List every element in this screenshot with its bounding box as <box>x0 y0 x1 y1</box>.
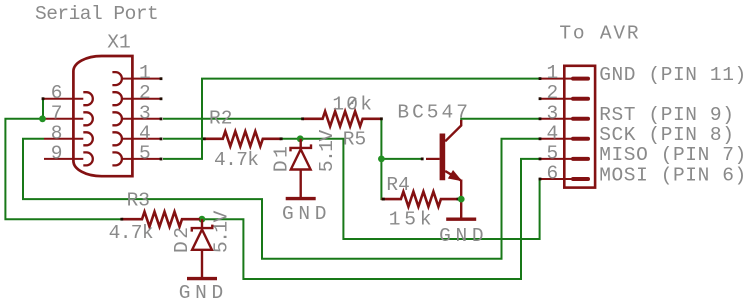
svg-text:R5: R5 <box>343 129 366 151</box>
wire pin4 to R2 <box>163 138 204 140</box>
svg-text:MISO (PIN 7): MISO (PIN 7) <box>599 144 747 166</box>
wire pin6 to pin7 node <box>42 99 44 119</box>
svg-text:BC547: BC547 <box>397 102 471 124</box>
header pin 2 <box>539 97 588 100</box>
svg-text:GND (PIN 11): GND (PIN 11) <box>599 64 747 86</box>
wire R3 to D2 node to header pin5 MISO <box>200 159 541 279</box>
base lead <box>426 158 440 160</box>
transistor Q1 BC547 <box>426 120 461 219</box>
svg-text:5: 5 <box>139 142 151 164</box>
header pin 5 <box>540 158 588 160</box>
X1 pin cups left column <box>83 92 93 165</box>
X1 pin 8 stub <box>44 138 83 140</box>
resistor R5 <box>303 111 382 126</box>
header pin 6 <box>540 178 588 180</box>
svg-text:2: 2 <box>547 82 559 104</box>
svg-text:5.1V: 5.1V <box>211 210 233 253</box>
svg-text:GND: GND <box>439 225 488 247</box>
X1 pin 3 stub <box>122 118 163 121</box>
junction dot D1 node <box>297 135 304 142</box>
svg-text:3: 3 <box>547 102 559 124</box>
X1 pin cups right column <box>112 72 122 165</box>
resistor R3 <box>122 212 200 227</box>
wire R2 to D1 node to header pin6 MOSI <box>281 139 541 239</box>
svg-text:6: 6 <box>547 163 559 185</box>
svg-text:GND: GND <box>282 203 331 225</box>
svg-text:4: 4 <box>547 122 559 144</box>
base bar <box>440 134 446 181</box>
zener diode D2 <box>192 219 213 278</box>
svg-text:R4: R4 <box>386 174 409 196</box>
header pin 4 <box>540 138 588 140</box>
svg-text:MOSI (PIN 6): MOSI (PIN 6) <box>599 164 747 186</box>
svg-text:Serial Port: Serial Port <box>35 3 158 25</box>
X1 pin 5 stub <box>122 158 163 161</box>
svg-text:6: 6 <box>51 82 63 104</box>
svg-text:3: 3 <box>139 102 151 124</box>
wire base node to transistor base <box>381 158 421 160</box>
header SV1 box <box>564 66 595 188</box>
svg-text:SCK (PIN 8): SCK (PIN 8) <box>599 124 734 146</box>
svg-text:RST (PIN 9): RST (PIN 9) <box>599 104 734 126</box>
resistor R2 <box>204 131 281 146</box>
wire pin3 to R5 <box>163 118 303 120</box>
wire R5 right to base node <box>380 119 382 159</box>
svg-text:R2: R2 <box>209 108 232 130</box>
X1 pin 2 stub <box>122 97 163 100</box>
X1 pin 9 stub <box>44 158 83 160</box>
resistor R4 <box>381 192 458 207</box>
zener diode D1 <box>291 139 312 199</box>
ground under Q1 <box>446 217 476 220</box>
emitter stem to ground <box>460 180 462 220</box>
ground under D1 <box>286 197 316 200</box>
svg-text:To AVR: To AVR <box>559 23 640 45</box>
svg-text:4.7k: 4.7k <box>214 149 258 171</box>
emitter lead <box>445 171 460 180</box>
connector X1 DB9 body <box>73 56 132 176</box>
svg-text:1: 1 <box>139 62 151 84</box>
X1 pin 6 stub <box>44 98 83 100</box>
ground under D2 <box>187 277 217 280</box>
junction dot emitter/R4 <box>458 196 465 203</box>
X1 pin 7 stub <box>44 118 83 120</box>
svg-text:R3: R3 <box>127 189 150 211</box>
svg-text:4: 4 <box>139 122 151 144</box>
header pin 3 <box>540 118 588 120</box>
wire base node down to R4 <box>381 159 383 199</box>
junction dot D2 node <box>199 216 206 223</box>
svg-text:9: 9 <box>51 142 63 164</box>
svg-text:D1: D1 <box>271 144 293 172</box>
svg-text:2: 2 <box>139 82 151 104</box>
wire pin5 to header pin1 GND <box>163 79 541 159</box>
wire pin8 to header pin4 SCK <box>23 139 541 259</box>
svg-text:5.1V: 5.1V <box>316 129 338 172</box>
svg-text:15k: 15k <box>389 209 436 231</box>
svg-text:4.7k: 4.7k <box>109 222 153 244</box>
collector lead <box>445 120 461 141</box>
svg-text:8: 8 <box>51 122 63 144</box>
svg-text:7: 7 <box>51 102 63 124</box>
X1 pin 1 stub <box>122 77 163 80</box>
X1 pin 4 stub <box>122 138 163 141</box>
emitter arrow <box>449 171 461 180</box>
wire collector to header pin3 RST <box>461 119 541 121</box>
svg-text:5: 5 <box>547 142 559 164</box>
junction dot pin7 <box>39 115 46 122</box>
svg-text:D2: D2 <box>171 225 193 253</box>
svg-text:1: 1 <box>547 62 559 84</box>
svg-text:GND: GND <box>179 282 228 304</box>
header pin 1 <box>540 78 588 80</box>
wire pin7 node to R3 via left edge <box>5 119 121 219</box>
svg-text:10k: 10k <box>332 94 374 116</box>
svg-text:X1: X1 <box>107 32 130 54</box>
junction dot base node <box>378 156 385 163</box>
